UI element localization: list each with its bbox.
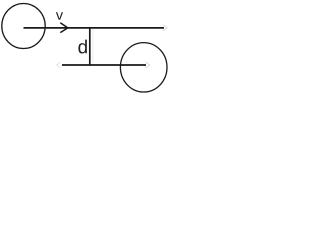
wire: horizontal trajectory line from ball A center xyxy=(24,27,165,29)
ball A (left circle) xyxy=(2,4,45,49)
ghost of vertical line xyxy=(92,29,94,63)
label d xyxy=(78,40,87,54)
wire: bottom trajectory line xyxy=(62,64,146,66)
wire: vertical drop line xyxy=(89,27,91,66)
faint mark at left end of bottom line xyxy=(57,62,61,67)
velocity arrowhead xyxy=(60,23,68,33)
ball B (right circle) xyxy=(120,43,167,92)
faint arrowhead at right end of bottom line xyxy=(146,62,150,68)
faint arrowhead at right end of top line xyxy=(163,25,167,31)
label v xyxy=(56,12,63,20)
